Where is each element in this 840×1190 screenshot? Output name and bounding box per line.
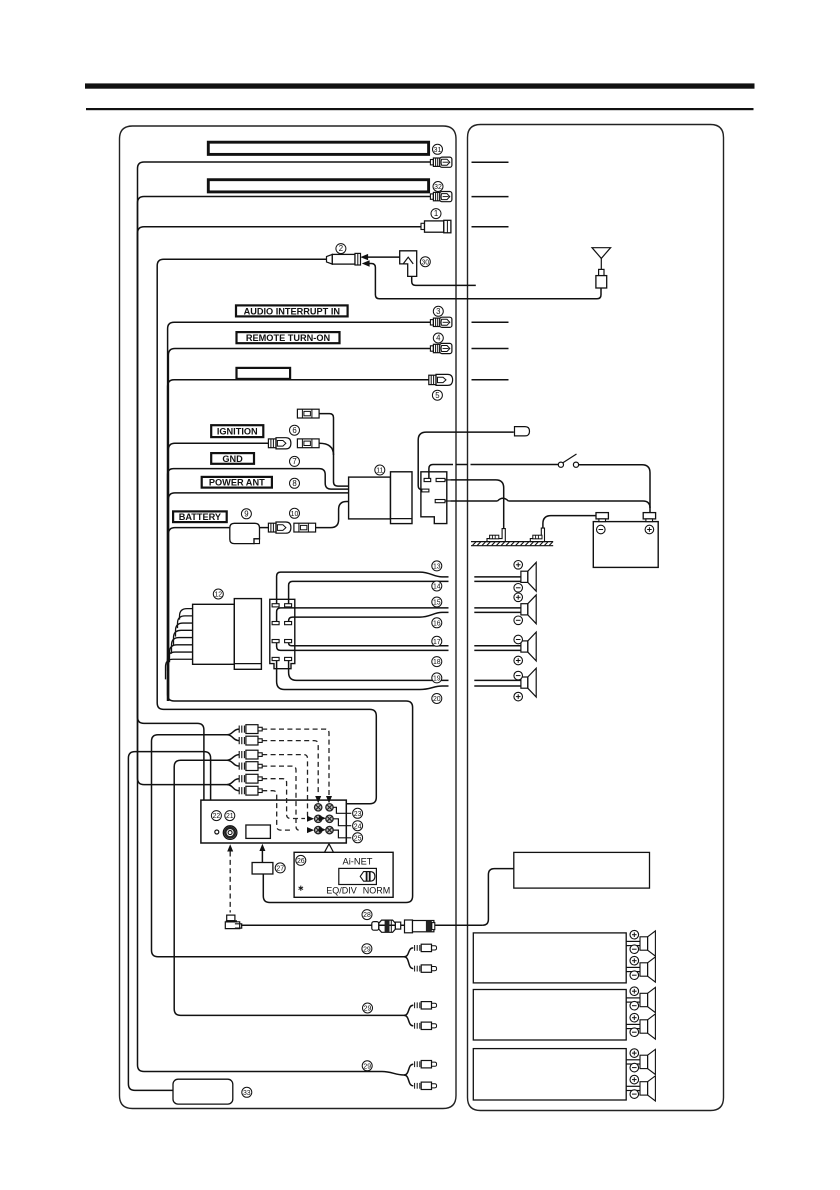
svg-text:30: 30 [421,259,429,266]
svg-text:BATTERY: BATTERY [179,512,221,522]
svg-text:33: 33 [243,1090,251,1097]
svg-text:11: 11 [376,468,383,475]
svg-text:EQ/DIV: EQ/DIV [326,886,357,896]
svg-text:29: 29 [363,946,371,953]
svg-text:28: 28 [363,912,371,919]
svg-text:15: 15 [433,600,441,607]
svg-text:3: 3 [436,307,440,316]
svg-text:REMOTE TURN-ON: REMOTE TURN-ON [246,333,331,343]
svg-text:9: 9 [244,509,248,518]
svg-text:13: 13 [433,564,441,571]
svg-text:21: 21 [226,813,234,820]
svg-text:2: 2 [339,244,343,253]
svg-text:12: 12 [214,592,222,599]
svg-text:5: 5 [435,391,440,400]
svg-text:POWER ANT: POWER ANT [209,478,265,488]
svg-text:6: 6 [292,426,296,435]
svg-text:18: 18 [433,659,441,666]
svg-text:IGNITION: IGNITION [217,427,258,437]
svg-text:19: 19 [433,676,441,683]
svg-text:24: 24 [354,823,362,830]
svg-text:7: 7 [292,457,296,466]
svg-text:1: 1 [434,209,438,218]
svg-text:22: 22 [213,813,221,820]
svg-text:17: 17 [433,639,441,646]
svg-text:31: 31 [434,147,442,154]
svg-text:25: 25 [354,835,362,842]
svg-text:16: 16 [433,620,441,627]
svg-text:8: 8 [292,479,296,488]
svg-text:AUDIO INTERRUPT IN: AUDIO INTERRUPT IN [244,306,341,316]
svg-text:26: 26 [297,858,305,865]
svg-text:27: 27 [276,866,284,873]
svg-text:32: 32 [434,184,442,191]
svg-text:GND: GND [222,454,243,464]
svg-text:14: 14 [433,584,441,591]
svg-text:29: 29 [363,1063,371,1070]
svg-text:29: 29 [364,1006,372,1013]
svg-text:23: 23 [354,811,362,818]
svg-text:20: 20 [433,696,441,703]
svg-text:NORM: NORM [363,886,391,896]
svg-text:Ai-NET: Ai-NET [343,856,373,866]
svg-text:10: 10 [291,511,299,518]
svg-text:4: 4 [436,334,441,343]
